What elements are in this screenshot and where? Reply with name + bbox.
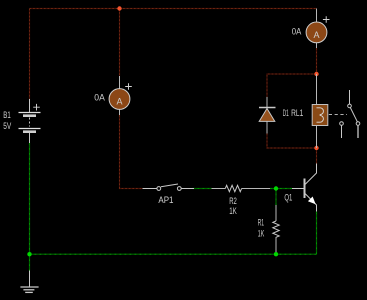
relay switch (changeover contact) xyxy=(329,90,360,138)
svg-text:AP1: AP1 xyxy=(158,195,173,205)
resistor R2 xyxy=(212,185,271,191)
wire: R2 to node C and to Q1 base xyxy=(270,188,292,190)
diode D1 xyxy=(259,97,276,134)
node A (red, relay top) xyxy=(314,72,318,76)
wire: AP1 to R2 (green segment) xyxy=(193,188,212,190)
svg-text:1K: 1K xyxy=(258,228,264,238)
relay coil RL1 xyxy=(312,74,328,148)
wire: ammeter AM2 to AP1 (down then right) xyxy=(120,115,143,189)
wire: ground rail up to Q1 emitter xyxy=(316,212,318,255)
resistor R1 xyxy=(273,205,279,253)
ammeter AM1 (top right) xyxy=(306,9,329,49)
node C (green, base node) xyxy=(274,186,278,190)
battery B1 xyxy=(19,99,41,143)
wire: node B down to Q1 collector xyxy=(316,148,318,164)
wire: battery negative down to ground rail xyxy=(29,143,31,254)
ground xyxy=(20,271,38,293)
ammeter AM2 (middle) xyxy=(109,76,132,115)
svg-text:A: A xyxy=(116,96,122,106)
svg-text:RL1: RL1 xyxy=(291,108,303,118)
wire: ground node down to ground symbol xyxy=(29,254,31,270)
wire: diode branch bottom (D1 down and right to node B) xyxy=(267,134,317,149)
svg-text:1K: 1K xyxy=(229,206,237,216)
wire: left vertical from top rail to battery xyxy=(29,9,31,100)
wire: node C down to R1 xyxy=(275,189,277,206)
transistor Q1 xyxy=(292,164,317,212)
svg-text:0A: 0A xyxy=(292,27,302,37)
wire: top horizontal rail (+V) xyxy=(30,8,317,10)
node B (red, relay bottom) xyxy=(314,146,318,150)
node: green ground-rail junction at battery xyxy=(27,252,31,256)
svg-text:5V: 5V xyxy=(3,121,11,131)
svg-text:B1: B1 xyxy=(3,110,10,120)
wire: bottom ground rail xyxy=(30,253,317,255)
svg-text:A: A xyxy=(313,30,319,40)
wire: ammeter AM1 to node A xyxy=(316,48,318,74)
svg-text:R2: R2 xyxy=(229,196,237,206)
switch AP1 xyxy=(143,184,195,190)
node: red junction on top rail xyxy=(117,6,121,10)
wire: diode branch top (node A left and down to D1) xyxy=(267,74,317,97)
svg-text:0A: 0A xyxy=(94,92,105,102)
svg-text:Q1: Q1 xyxy=(284,193,292,203)
node: green ground-rail junction at R1 bottom xyxy=(274,252,278,256)
svg-text:D1: D1 xyxy=(283,108,289,118)
wire: middle vertical drop to ammeter AM2 xyxy=(119,9,121,77)
svg-text:R1: R1 xyxy=(258,218,264,228)
